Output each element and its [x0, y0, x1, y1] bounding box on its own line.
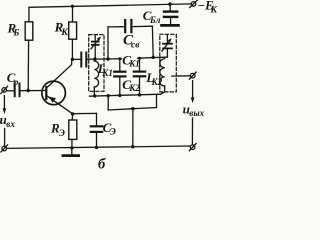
svg-text:К1: К1	[101, 68, 113, 78]
wire tank1 bottom line A	[90, 94, 161, 96]
wire C_св to tank2	[133, 25, 153, 27]
wire top supply rail	[29, 4, 191, 7]
svg-text:св: св	[131, 41, 140, 51]
wire emitter to C_Э	[73, 112, 97, 114]
node collector line / tank1	[93, 57, 96, 60]
capacitor C_К2	[139, 58, 141, 70]
svg-text:вых: вых	[189, 108, 204, 118]
terminal bottom-right	[190, 145, 195, 150]
node base junction	[27, 89, 30, 92]
arrow u_вых	[192, 81, 194, 98]
ground (C_Бл)	[162, 24, 179, 27]
node line A / C_К2	[138, 93, 141, 96]
svg-text:б: б	[98, 157, 106, 173]
capacitor C_Бл	[169, 4, 171, 10]
dashed box tank 1	[89, 35, 104, 92]
node rail / C_Э	[95, 146, 98, 149]
svg-text:р: р	[13, 78, 19, 88]
transistor VT (PNP)	[42, 81, 66, 105]
resistor R_К	[72, 6, 74, 22]
node rail / drop	[131, 145, 134, 148]
resistor R_Э	[71, 114, 73, 120]
svg-text:Э: Э	[59, 129, 65, 139]
ground (R_Э)	[63, 154, 79, 157]
node С_К1 top	[118, 57, 121, 60]
svg-text:К1: К1	[128, 59, 140, 69]
svg-text:вх: вх	[6, 119, 15, 129]
capacitor C_К1	[119, 59, 121, 71]
terminal output	[190, 73, 195, 78]
svg-text:К2: К2	[128, 83, 140, 93]
wire collector line	[72, 58, 80, 60]
svg-text:Б: Б	[13, 27, 20, 37]
capacitor C_Э	[91, 125, 102, 127]
inductor L_К2	[160, 59, 165, 86]
variable capacitor C2	[166, 49, 168, 57]
node line A / C_К1	[118, 94, 121, 97]
capacitor C_св	[124, 20, 126, 32]
wire node line segment (left of С_К1 label)	[108, 58, 122, 60]
svg-text:К: К	[60, 28, 68, 38]
wire output tap	[172, 75, 191, 77]
inductor L_К1	[94, 61, 98, 87]
node top rail / C_Бл	[168, 2, 171, 5]
node line B / drop	[131, 107, 134, 110]
node collector junction	[71, 58, 74, 61]
wire node line segment (right of С_К1 label)	[138, 57, 168, 58]
wire drop to rail	[132, 109, 134, 147]
terminal input u_вх	[2, 88, 7, 93]
node rail / R_Э	[70, 146, 73, 149]
wire riser right line B	[156, 94, 158, 107]
node top rail / R_К	[71, 5, 74, 8]
svg-text:К: К	[210, 6, 218, 16]
svg-text:Э: Э	[110, 128, 116, 138]
arrow u_вх	[3, 96, 5, 109]
wire riser left line B	[107, 96, 109, 110]
node collector line / riser	[106, 57, 109, 60]
terminal -E_К	[191, 2, 196, 7]
node emitter junction	[71, 112, 74, 115]
svg-text:К2: К2	[151, 77, 163, 87]
wire bottom rail	[7, 146, 191, 148]
node tank1 bottom	[93, 94, 96, 97]
wire line B	[108, 108, 156, 111]
terminal bottom-left	[2, 146, 7, 151]
resistor R_Б	[28, 7, 30, 21]
variable capacitor C1	[94, 35, 96, 41]
node tank2 top	[152, 56, 155, 59]
node С_К2 top	[138, 57, 141, 60]
wire riser to C_св	[107, 27, 109, 59]
svg-text:Бл: Бл	[149, 15, 161, 25]
capacitor (collector series)	[80, 53, 82, 67]
dashed box tank 2	[160, 34, 177, 92]
node line A / riser	[107, 94, 110, 97]
capacitor C_р	[7, 90, 14, 92]
